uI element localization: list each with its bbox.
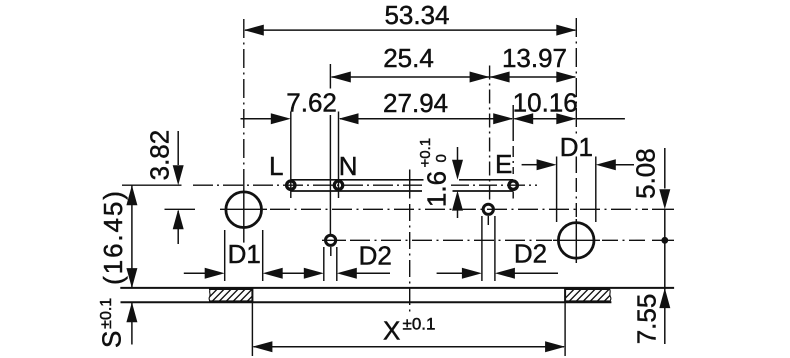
wire: slot outline bottom <box>291 190 422 192</box>
svg-text:5.08: 5.08 <box>631 148 661 199</box>
svg-text:7.55: 7.55 <box>632 294 662 345</box>
wire: dimension line 7.62 tail <box>241 118 272 120</box>
arrow 25.4 left <box>331 72 351 83</box>
svg-text:D1: D1 <box>560 132 593 162</box>
svg-text:S: S <box>97 331 127 348</box>
svg-text:L: L <box>269 151 283 181</box>
wire: dimension line 10.16 <box>514 118 575 120</box>
wire: 16.45 / S dimension vertical <box>131 185 133 288</box>
pin N <box>334 181 342 189</box>
hatch panel right <box>561 288 617 302</box>
svg-text:0: 0 <box>433 154 450 162</box>
node D1 right tangent extensions <box>556 157 558 223</box>
arrow 53.34 right <box>556 25 576 36</box>
arrow X right <box>545 341 565 352</box>
node pin E centerline vertical <box>512 105 514 141</box>
svg-text:(16.45): (16.45) <box>98 189 128 285</box>
svg-text:±0.1: ±0.1 <box>98 298 115 329</box>
node left D1 centerline vertical dash-dot <box>243 19 245 188</box>
svg-text:1.6: 1.6 <box>422 171 452 207</box>
node D2 left tangent extensions <box>323 247 325 281</box>
svg-text:27.94: 27.94 <box>383 88 448 118</box>
svg-text:7.62: 7.62 <box>286 88 337 118</box>
arrow D2-right right <box>495 268 515 279</box>
hatch panel left <box>204 288 260 302</box>
hole D2 right <box>483 204 493 214</box>
node right D1 centerline vertical dash-dot <box>575 18 577 136</box>
arrow 3.82 up <box>173 209 184 229</box>
wire: 5.08 / 7.55 dimension vertical <box>664 148 666 189</box>
wire: pin row centerline horizontal <box>122 184 182 186</box>
wire: X dimension row <box>254 346 565 348</box>
svg-text:25.4: 25.4 <box>383 43 434 73</box>
wire: dimension line 27.94 <box>340 118 512 120</box>
node D2 right tangent extensions <box>481 216 483 281</box>
wire: dimension line 13.97 <box>490 76 575 78</box>
arrow 10.16 left <box>513 113 533 124</box>
svg-text:X: X <box>383 316 400 346</box>
arrow 53.34 left <box>244 25 264 36</box>
pin L <box>287 181 295 189</box>
arrow 13.97 right <box>556 72 576 83</box>
wire: D1 right dimension row <box>522 164 537 166</box>
svg-text:10.16: 10.16 <box>513 88 578 118</box>
arrow 13.97 left <box>490 72 510 83</box>
arrow 16.45 up <box>126 185 137 205</box>
arrowheads <box>126 25 670 353</box>
arrow D2-left left <box>304 268 324 279</box>
arrow D1-left right <box>263 268 283 279</box>
node D1 left tangent extensions <box>224 230 226 281</box>
hole D2 left <box>326 235 336 245</box>
arrow 10.16 right <box>556 113 576 124</box>
svg-text:3.82: 3.82 <box>144 130 174 181</box>
arrow 27.94 left <box>339 113 359 124</box>
arrow D2-right left <box>462 268 482 279</box>
svg-text:D1: D1 <box>228 239 261 269</box>
svg-text:13.97: 13.97 <box>502 43 567 73</box>
arrow D1-right right <box>596 159 616 170</box>
wire: centerline y240 horizontal <box>322 239 346 241</box>
arrow S bottom up <box>126 302 137 322</box>
node pin N centerline vertical <box>338 112 340 199</box>
wire: centerline y209 horizontal <box>165 208 196 210</box>
wire: 1.6 dimension vertical <box>457 147 459 160</box>
node pin L centerline vertical <box>290 112 292 199</box>
svg-text:D2: D2 <box>514 239 547 269</box>
wire: module vertical centerline dash-dot <box>409 170 411 199</box>
svg-text:E: E <box>495 149 512 179</box>
wire: D1/D2 bottom dimension row y273 <box>184 272 205 274</box>
wire: flange bottom line <box>121 301 612 303</box>
svg-text:D2: D2 <box>359 241 392 271</box>
node dot at y240 <box>661 237 668 244</box>
arrow D1-left left <box>205 268 225 279</box>
svg-text:N: N <box>339 151 358 181</box>
arrow 1.6 up <box>452 191 463 211</box>
wire: dimension 10.16 right tail <box>576 118 625 120</box>
arrow 27.94 right <box>493 113 513 124</box>
arrow X left <box>252 341 272 352</box>
arrow 3.82 down <box>173 165 184 185</box>
svg-text:+0.1: +0.1 <box>417 138 434 168</box>
svg-text:53.34: 53.34 <box>384 0 449 30</box>
pin E <box>509 181 517 189</box>
arrow 7.55 up <box>659 288 670 308</box>
arrow 7.62 left outside <box>271 113 291 124</box>
wire: flange top line <box>120 287 674 289</box>
wire: dimension line 53.34 row <box>245 29 575 31</box>
node D2-right centerline vertical dash-dot <box>489 66 491 203</box>
wire: dimension line 25.4 <box>332 76 490 78</box>
arrow 1.6 down <box>452 160 463 180</box>
wire: slot outline top <box>291 179 424 181</box>
arrow 25.4 right <box>470 72 490 83</box>
hole D1 left <box>226 192 262 228</box>
node D2-left centerline vertical <box>329 64 331 89</box>
arrow D2-left right <box>337 268 357 279</box>
arrow 16.45 down / S top <box>126 268 137 288</box>
hole D1 right <box>558 223 594 259</box>
wire: cutout edge right / X extension <box>564 288 566 303</box>
arrow D1-right left <box>537 159 557 170</box>
wire: 3.82 dimension vertical <box>177 131 179 165</box>
wire: cutout edge left / X extension <box>251 288 253 303</box>
svg-text:±0.1: ±0.1 <box>403 315 436 334</box>
arrow 5.08 down <box>659 189 670 209</box>
